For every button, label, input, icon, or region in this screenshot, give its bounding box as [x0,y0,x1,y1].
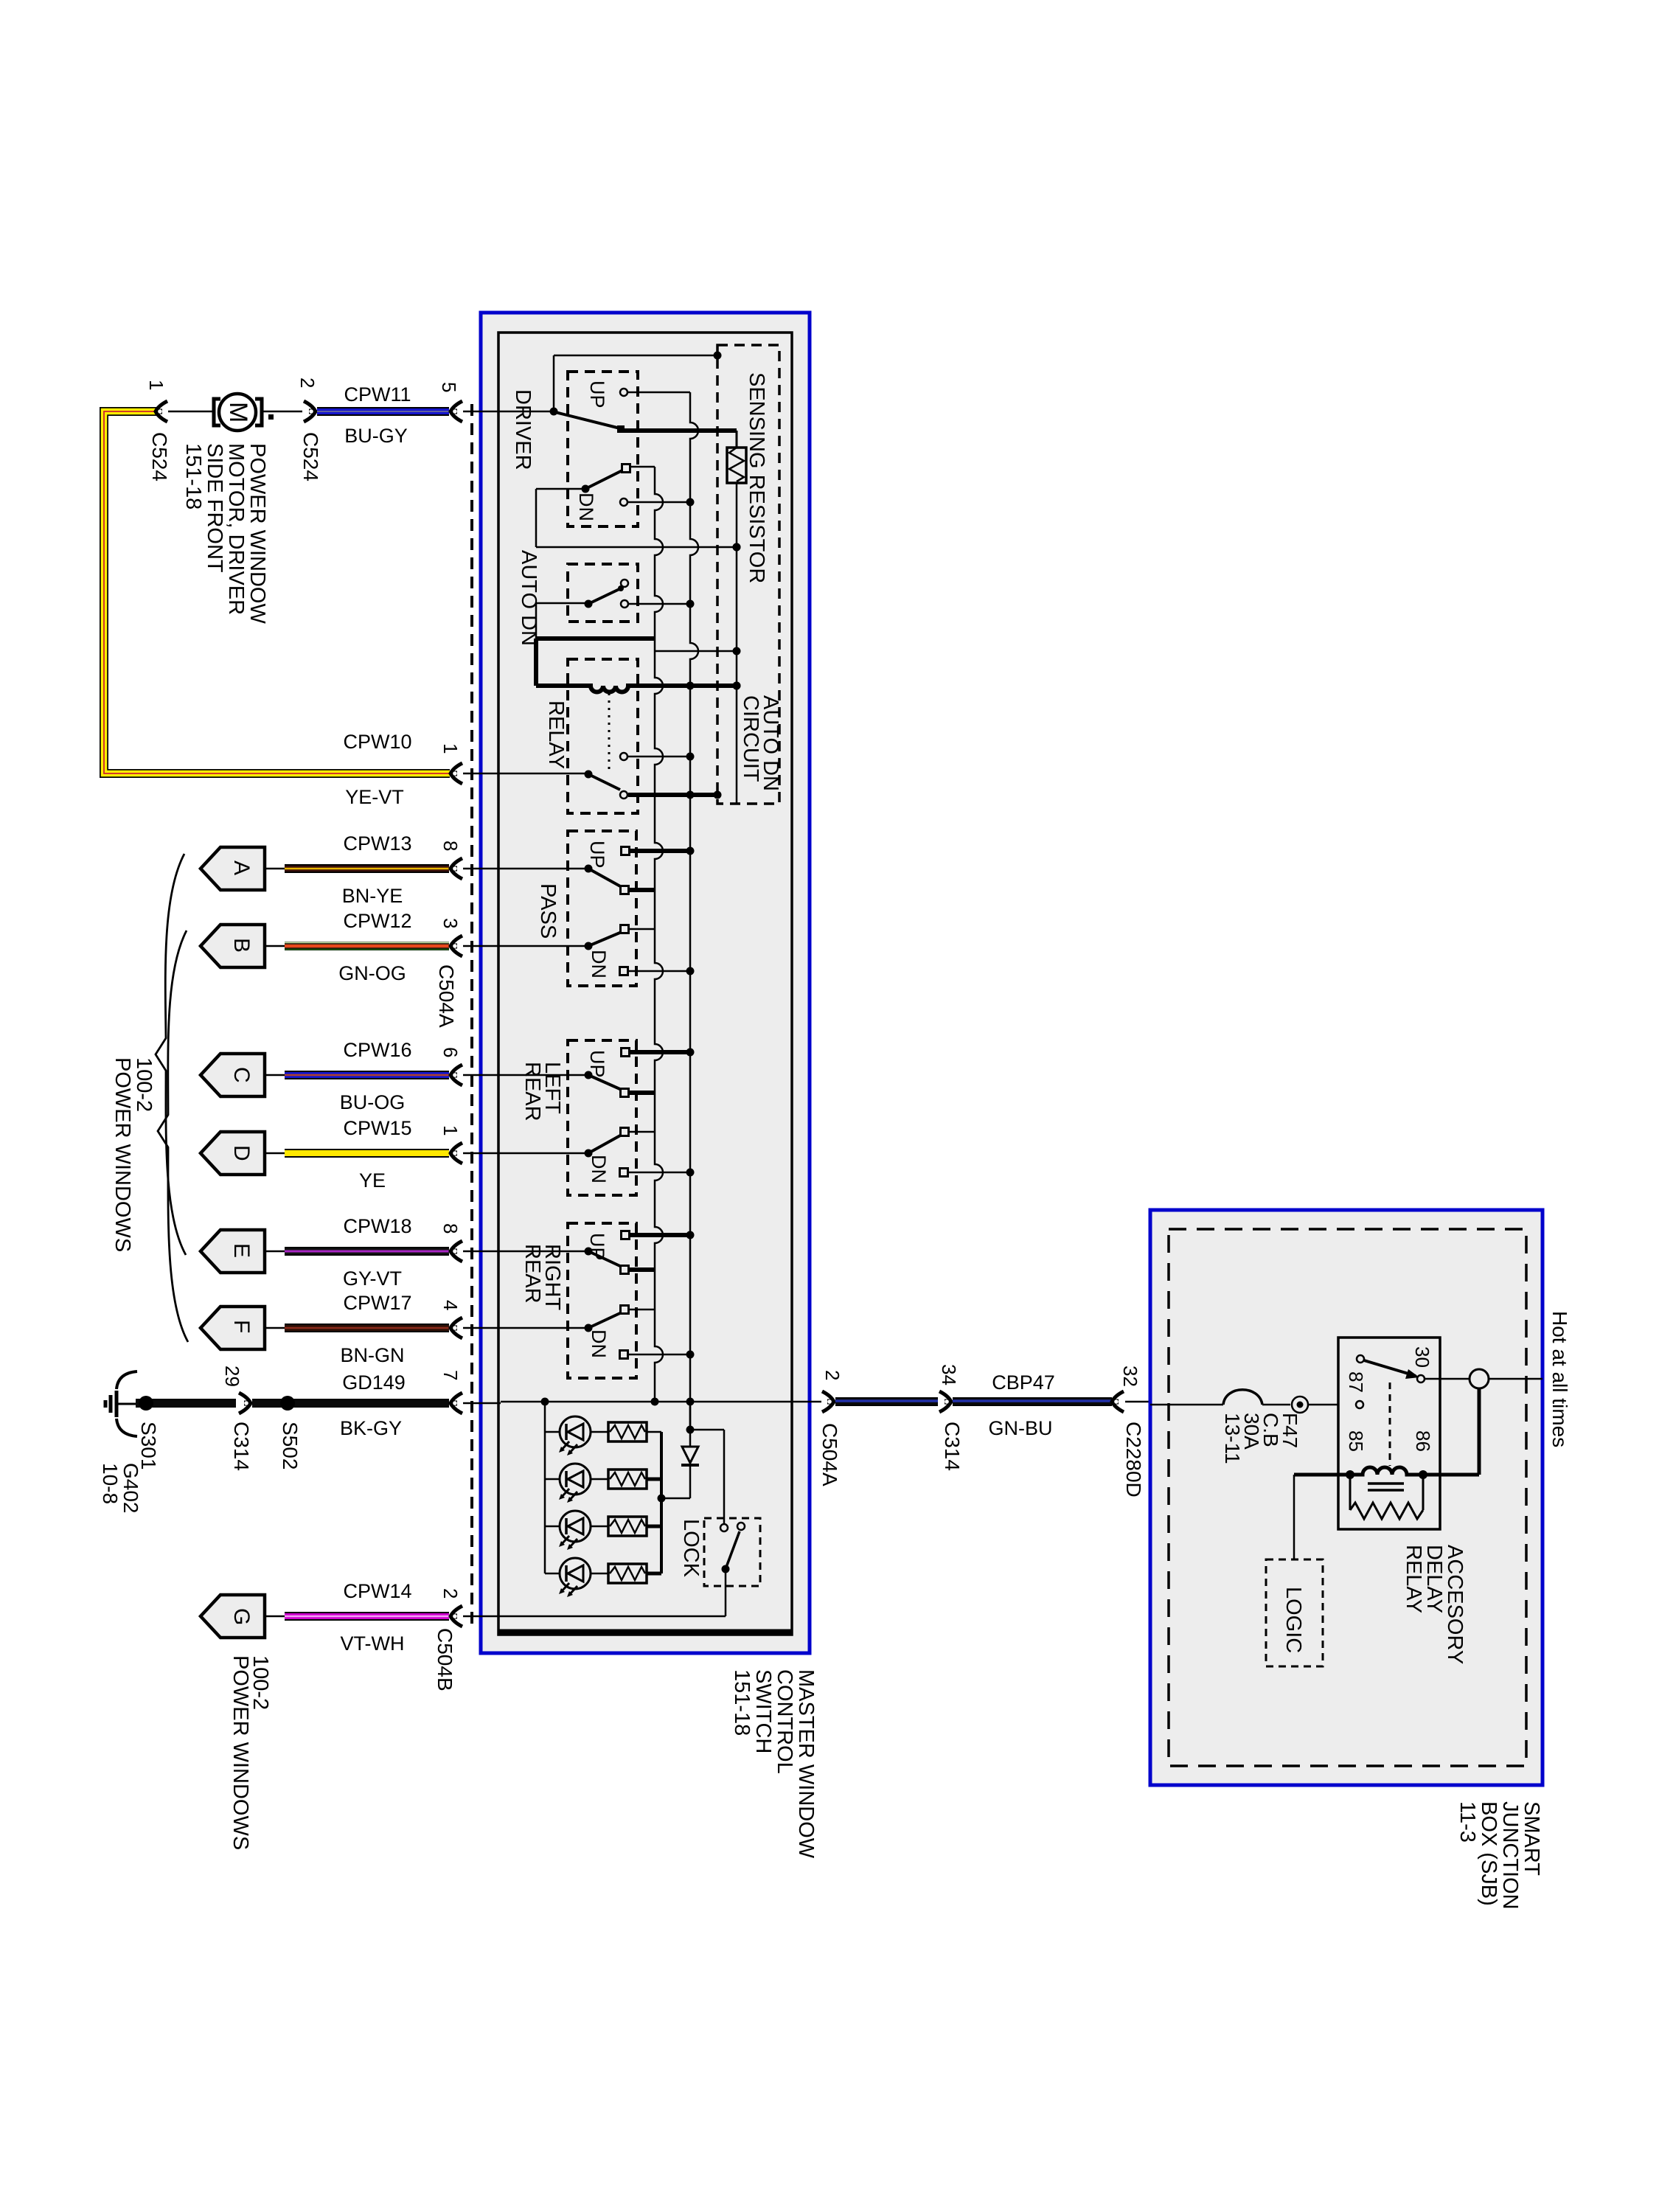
svg-text:CPW16: CPW16 [343,1039,411,1061]
pin 32 label [1119,1366,1141,1387]
brace power windows lower [158,931,188,1342]
svg-text:GY-VT: GY-VT [343,1267,402,1290]
svg-text:LOGIC: LOGIC [1281,1587,1305,1653]
connector C [201,1054,265,1096]
wire CPW12 GN-OG [265,942,449,950]
driver UP contact [620,389,690,396]
relay 87 contact [1356,1401,1363,1408]
wire auto dn pivot hook [536,603,588,639]
LED resistor 2 [608,1470,647,1489]
pin 5 label [438,382,460,392]
driver UP output thick wire to sensing resistor [623,431,737,448]
label UP (driver) [586,380,608,408]
svg-text:Hot at all times: Hot at all times [1548,1311,1571,1447]
switch assembly inner box [498,333,792,1635]
logic dashed box [1266,1559,1323,1666]
connector arrow pin 8 [451,1241,501,1262]
svg-text:LOCK: LOCK [679,1519,703,1578]
label 86 [1412,1430,1434,1452]
svg-text:D: D [229,1145,254,1161]
driver switch dashed box [568,372,638,526]
svg-text:1: 1 [439,743,462,754]
label YE-VT [345,786,404,808]
pin 8 label (A) [439,841,462,851]
label GD149 [342,1371,406,1394]
LED common wire left [544,1402,546,1573]
lock switch dashed box [704,1518,760,1586]
LEFT REAR DN switch arm [585,1128,629,1158]
label G402 10-8 [99,1463,142,1514]
LED resistor 1 [608,1422,647,1441]
relay coil [1346,1467,1427,1490]
pin 3 label (B) [439,918,462,928]
svg-text:7: 7 [439,1370,462,1380]
label 87 [1345,1371,1367,1393]
pin 2 label (G) [439,1588,462,1599]
svg-text:DN: DN [588,1155,610,1183]
svg-text:8: 8 [439,841,462,851]
label PASS section [536,883,560,939]
SJB inner dashed box [1169,1229,1526,1766]
svg-text:5: 5 [438,382,460,392]
lock switch [720,1523,745,1573]
label AUTO DN [517,550,540,646]
wire pin8 entry (PASS up) [501,868,588,870]
svg-text:RELAY: RELAY [544,700,568,769]
label CPW18 [343,1215,411,1237]
label DN (RIGHT REAR) [588,1329,610,1358]
svg-text:DN: DN [588,1329,610,1358]
svg-text:1: 1 [145,380,167,390]
label DN (LEFT REAR) [588,1155,610,1183]
svg-text:DN: DN [575,493,597,521]
connector arrow pin2 C504A [822,1391,834,1412]
label 85 [1345,1430,1367,1452]
label C314 (left) [230,1422,253,1471]
sensing resistor R [727,448,746,483]
wire lock switch to pin2 C504B [501,1569,726,1616]
brace power windows upper [156,854,186,1255]
pin 2 label (C524) [296,378,319,388]
accessory delay relay box [1338,1338,1440,1529]
wire C2280D to SJB [1125,1401,1150,1403]
driver UP switch arm [555,412,625,433]
wire CPW10/YE-VT yellow loop [104,411,450,773]
wire CPW16 BU-OG [265,1071,449,1079]
svg-text:C524: C524 [148,432,171,481]
driver DN switch arm [582,465,630,493]
indicator LED 1 [545,1416,608,1455]
wire CPW15 YE [265,1149,449,1158]
wire driver DN arm to mid bus [630,466,655,468]
wire CPW14 VT-WH [265,1612,449,1621]
wire CPW17 BN-GN [265,1324,449,1332]
wire coil 86 to hot node [1423,1388,1479,1475]
svg-text:G: G [229,1608,254,1625]
indicator LED 3 [545,1511,608,1550]
label CPW16 [343,1039,411,1061]
wire to lock switch [690,1430,724,1523]
connector C314 arrow (pin 29) [239,1393,251,1413]
svg-text:BU-OG: BU-OG [340,1091,406,1113]
connector C2280D arrow (pin 32) [1112,1391,1124,1412]
label BN-YE [342,885,403,907]
svg-text:8: 8 [439,1223,462,1234]
svg-text:C314: C314 [941,1422,964,1471]
label CPW10 [343,731,411,753]
svg-text:A: A [229,860,254,875]
svg-text:SENSING RESISTOR: SENSING RESISTOR [745,372,768,583]
connector D [201,1132,265,1175]
connector arrow pin 3 [451,936,501,956]
svg-text:85: 85 [1345,1430,1367,1452]
label UP (PASS) [586,841,608,869]
wire PASS DN arm to mid bus [629,928,655,931]
connector C504A/C504B dashed line [470,404,473,1626]
label SMART JUNCTION BOX (SJB) 11-3 [1455,1801,1543,1910]
svg-text:YE-VT: YE-VT [345,786,404,808]
svg-text:AUTO DNCIRCUIT: AUTO DNCIRCUIT [739,695,782,791]
label DN (driver) [575,493,597,521]
auto dn switch dashed box [568,564,638,622]
label S301 [137,1422,160,1470]
label CBP47 [992,1371,1055,1394]
PASS UP output thick wire [629,888,655,892]
wire 30 to hot node [1425,1378,1470,1380]
PASS UP contact [622,847,695,855]
svg-text:S502: S502 [279,1422,302,1470]
LED resistor 3 [608,1517,647,1536]
connector arrow pin 1 (C504A) [451,763,501,784]
diode D1 [661,1402,699,1498]
svg-text:BK-GY: BK-GY [340,1417,402,1439]
connector arrow pin 1 [451,1143,501,1164]
circuit breaker F47 C.B 30A [1223,1390,1290,1405]
svg-text:M: M [224,402,252,422]
svg-text:87: 87 [1345,1371,1367,1393]
svg-text:GD149: GD149 [342,1371,406,1394]
svg-text:C504A: C504A [435,964,458,1028]
label BU-GY [344,425,408,447]
label C504A (left) [435,964,458,1028]
connector A [201,847,265,890]
label LOCK [679,1519,703,1578]
wire relay feed thick [536,639,655,686]
svg-text:LEFTREAR: LEFTREAR [521,1062,564,1121]
wire thin C524 pin1 to motor [168,411,212,413]
pin 4 label (F) [439,1300,462,1310]
wire thin motor to C524 pin2 [262,411,302,413]
svg-text:CPW10: CPW10 [343,731,411,753]
label GY-VT [343,1267,402,1290]
svg-text:PASS: PASS [536,883,560,939]
label C2280D [1122,1422,1145,1498]
svg-text:CPW17: CPW17 [343,1292,411,1314]
svg-text:C2280D: C2280D [1122,1422,1145,1498]
svg-text:1: 1 [439,1125,462,1135]
svg-text:CPW18: CPW18 [343,1215,411,1237]
wire pin4 entry (RR dn) [501,1327,588,1329]
label DN (PASS) [588,950,610,978]
connector arrow pin 8 [451,858,501,879]
label CPW12 [343,910,411,932]
label F47 C.B 30A 13-11 [1221,1413,1301,1464]
feed wire pin7 to pin2 inside box [501,1398,792,1406]
label BK-GY [340,1417,402,1439]
label GN-OG [338,962,406,984]
label SENSING RESISTOR [745,372,768,583]
connector arrow pin 6 [451,1065,501,1085]
pin 7 label [439,1370,462,1380]
RIGHT REAR DN switch arm [585,1306,629,1332]
connector G [201,1595,265,1638]
connector arrow pin 7 (C504A) [451,1393,501,1413]
RIGHT REAR UP switch arm [585,1248,629,1274]
label CPW11 [344,383,411,406]
connector C524 pin 2 arrow [304,401,316,422]
svg-text:6: 6 [439,1047,462,1057]
relay coil [536,682,741,692]
node dot right of motor [268,414,274,420]
svg-text:RIGHTREAR: RIGHTREAR [521,1244,564,1311]
relay mechanical link dotted [608,693,611,770]
label CPW14 [343,1580,411,1602]
motor M, power window driver side front [214,394,262,431]
svg-text:UP: UP [586,841,608,869]
relay mech link dashed [1389,1382,1391,1466]
LED resistor common wire right [647,1432,666,1573]
auto dn switch contacts [621,580,695,608]
master window control switch box outline [481,313,810,1653]
svg-text:CPW15: CPW15 [343,1117,411,1139]
label VT-WH [341,1632,405,1655]
label C524 right [299,432,322,481]
connector F [201,1307,265,1349]
wire GD149 BK-GY segment 2 [252,1399,449,1408]
relay 30 contact and arm [1357,1355,1425,1382]
label C504A (right) [818,1423,841,1486]
label RIGHT section [521,1244,564,1311]
pin 6 label (C) [439,1047,462,1057]
svg-text:CPW14: CPW14 [343,1580,411,1602]
wire CBP47 GN-BU segment 2 [953,1397,1112,1406]
label 100-2 POWER WINDOWS (G) [229,1655,272,1850]
svg-text:C314: C314 [230,1422,253,1471]
label BU-OG [340,1091,406,1113]
PASS UP switch arm [585,865,629,894]
svg-text:E: E [229,1243,254,1258]
svg-text:C524: C524 [299,432,322,481]
circled node symbol [1292,1397,1357,1413]
pin 8 label (E) [439,1223,462,1234]
connector C524 pin 1 arrow [156,401,167,422]
svg-text:29: 29 [221,1366,243,1387]
RIGHT REAR switch dashed box [568,1223,636,1378]
svg-text:BN-YE: BN-YE [342,885,403,907]
hot at all times node circle [1470,1369,1489,1388]
label CPW15 [343,1117,411,1139]
pin 34 label [938,1364,960,1385]
wire pin5 entry to driver switch [501,352,722,416]
pin 2 label (C504A right) [821,1370,844,1380]
svg-text:30: 30 [1411,1346,1433,1368]
driver DN contact [620,498,695,507]
auto dn switch arm [585,585,625,608]
wire CPW18 GY-VT [265,1247,449,1256]
LEFT REAR UP output thick wire [629,1091,655,1095]
svg-text:GN-OG: GN-OG [338,962,406,984]
svg-text:C504A: C504A [818,1423,841,1486]
label 30 [1411,1346,1433,1368]
indicator LED 2 [545,1464,608,1503]
svg-text:BU-GY: BU-GY [344,425,408,447]
LEFT REAR UP contact [622,1048,695,1057]
wire GD149 BK-GY segment 1 [136,1399,236,1408]
bus B1 wire (contacts bus) [686,392,699,1430]
svg-text:32: 32 [1119,1366,1141,1387]
wire pin1 entry (LR dn) [501,1152,588,1155]
label UP (LEFT REAR) [586,1050,608,1078]
label AUTO DN CIRCUIT [739,695,782,791]
auto dn circuit dashed box [717,345,779,804]
connector arrow pin 4 [451,1318,501,1338]
label UP (RIGHT REAR) [586,1233,608,1261]
wire LEFT REAR DN arm to mid bus [629,1131,655,1133]
relay switch arm [585,771,628,799]
PASS DN switch arm [585,925,629,950]
svg-text:DRIVER: DRIVER [511,389,535,470]
pin 1 label (C524) [145,380,167,390]
connector arrow pin 2 [451,1606,501,1627]
svg-text:DN: DN [588,950,610,978]
wire pin6 entry (LR up) [501,1074,588,1077]
svg-text:86: 86 [1412,1430,1434,1452]
wire coil tap to circuit [655,650,737,653]
label BN-GN [341,1344,405,1366]
svg-text:C504B: C504B [434,1628,456,1691]
label 100-2 POWER WINDOWS (A-F) [111,1057,156,1252]
RIGHT REAR UP contact [622,1231,695,1239]
relay dashed box [568,659,638,813]
wire RIGHT REAR DN arm to mid bus [629,1309,655,1311]
svg-text:VT-WH: VT-WH [341,1632,405,1655]
label CPW13 [343,832,411,855]
label Hot at all times [1548,1311,1571,1447]
svg-text:S301: S301 [137,1422,160,1470]
connector E [201,1230,265,1273]
LEFT REAR DN contact [620,1169,695,1177]
svg-text:4: 4 [439,1300,462,1310]
label MASTER WINDOW CONTROL SWITCH [730,1669,818,1859]
pin 1 label (D) [439,1125,462,1135]
splice S301 [139,1396,153,1411]
svg-text:B: B [229,938,254,953]
svg-text:UP: UP [586,380,608,408]
LEFT REAR switch dashed box [568,1040,636,1195]
label DRIVER [511,389,535,470]
svg-text:YE: YE [359,1169,386,1192]
ground G402 [105,1371,137,1436]
wire pin8 entry (RR up) [501,1251,588,1253]
svg-text:GN-BU: GN-BU [989,1417,1053,1439]
label ACCESORY DELAY RELAY [1402,1545,1467,1664]
relay suppression resistor [1350,1475,1423,1519]
label S502 [279,1422,302,1470]
wire driver DN pivot hook [536,489,741,552]
svg-text:CPW11: CPW11 [344,383,411,406]
label POWER WINDOW MOTOR DRIVER SIDE FRONT [181,443,269,624]
label C314 (right) [941,1422,964,1471]
label C524 left [148,432,171,481]
wire sensing resistor lower bus [733,483,741,804]
pin 29 label [221,1366,243,1387]
svg-text:2: 2 [296,378,319,388]
svg-text:BN-GN: BN-GN [341,1344,405,1366]
wire pin2 C504A exit [792,1401,821,1403]
svg-text:2: 2 [821,1370,844,1380]
connector B [201,925,265,967]
svg-text:CPW13: CPW13 [343,832,411,855]
svg-text:2: 2 [439,1588,462,1599]
label YE [359,1169,386,1192]
LED resistor 4 [608,1564,647,1583]
PASS DN contact [620,967,695,975]
wire hot node to SJB edge [1489,1378,1543,1380]
svg-text:34: 34 [938,1364,960,1385]
svg-text:CPW12: CPW12 [343,910,411,932]
connector C314 arrow (pin 34) [939,1391,951,1412]
wire pin3 entry (PASS dn) [501,945,588,947]
relay contact upper [620,753,695,761]
LEFT REAR UP switch arm [585,1071,629,1097]
PASS switch dashed box [568,831,636,986]
connector arrow pin 5 (C504A) [451,401,501,422]
smart junction box outline [1150,1210,1543,1785]
wire pin1 entry to relay arm [501,773,588,775]
wire CPW13 BN-YE [265,864,449,873]
wire CBP47 GN-BU segment 1 [835,1397,938,1406]
RIGHT REAR DN contact [620,1351,695,1359]
label CPW17 [343,1292,411,1314]
label C504B (left) [434,1628,456,1691]
wire CPW11 BU-GY [317,407,449,416]
relay output thick wire [628,791,722,799]
label GN-BU [989,1417,1053,1439]
svg-text:CBP47: CBP47 [992,1371,1055,1394]
label LOGIC [1281,1587,1305,1653]
mid bus wire (switch commons) [651,467,664,1406]
label LEFT section [521,1062,564,1121]
indicator LED 4 [545,1558,608,1597]
splice S502 [280,1396,295,1411]
svg-text:F: F [229,1320,254,1333]
label RELAY [544,700,568,769]
svg-text:3: 3 [439,918,462,928]
RIGHT REAR UP output thick wire [629,1267,655,1272]
pin 1 label (CPW10) [439,743,462,754]
wire SJB entry to circuit breaker [1150,1404,1223,1406]
svg-text:C: C [229,1067,254,1083]
wire coil 85 to logic [1294,1475,1350,1559]
